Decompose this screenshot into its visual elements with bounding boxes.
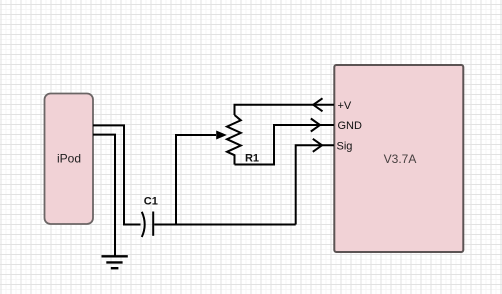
svg-text:iPod: iPod (57, 152, 81, 166)
capacitor C1 curved plate (142, 212, 145, 237)
V3.7A block U1 (334, 65, 463, 252)
wire C1 lead up to Sig pin (296, 145, 334, 224)
wire C1 right lead to Sig corner (154, 224, 296, 226)
wire wiper tap from C1 lead up to R1 arrow (176, 135, 216, 225)
wire iPod out1 to capacitor C1 left lead (93, 125, 141, 224)
svg-text:Sig: Sig (337, 140, 353, 152)
resistor R1 zigzag body (227, 115, 241, 165)
svg-text:R1: R1 (245, 152, 259, 164)
wire R1 top to +V pin (235, 105, 335, 115)
capacitor C1 straight plate (152, 212, 154, 236)
svg-text:V3.7A: V3.7A (384, 152, 417, 166)
svg-text:GND: GND (338, 120, 363, 132)
iPod block U2 (45, 94, 94, 225)
svg-text:+V: +V (338, 100, 352, 112)
wire iPod out2 to ground (93, 135, 115, 256)
open arrowhead pointing right on Sig wire (313, 139, 322, 152)
svg-text:C1: C1 (144, 196, 158, 208)
open arrowhead pointing right on GND wire (311, 119, 320, 132)
wiper arrowhead pointing at R1 (217, 131, 226, 139)
ground (102, 256, 128, 268)
open arrowhead pointing left on +V wire (313, 98, 322, 111)
wire R1 bottom to GND pin (235, 125, 335, 165)
